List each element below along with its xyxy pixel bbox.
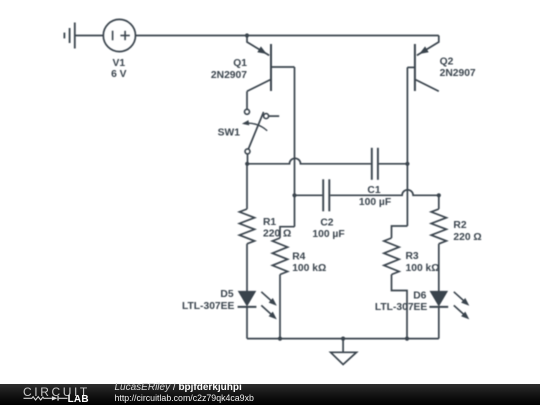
wire: D5 to bottom rail	[246, 307, 248, 339]
svg-text:C2: C2	[320, 218, 333, 229]
wire: R4 jog from Q1 base line	[280, 227, 295, 238]
wire: node A to R1	[246, 164, 248, 209]
node C (Q1 base / C2 / R4 junction)	[292, 193, 296, 197]
LED D5 (LTL-307EE)	[238, 291, 277, 319]
svg-text:R1: R1	[263, 217, 276, 228]
switch SW1 (SPDT)	[242, 109, 279, 154]
resistor R2	[431, 209, 446, 244]
resistor R1	[239, 209, 254, 244]
node D (Q2 collector / C2 / R2 junction)	[437, 193, 441, 197]
node: ground tap	[341, 337, 345, 341]
wire: Q1 collector to SW1	[246, 91, 248, 109]
LED D6 (LTL-307EE)	[429, 291, 469, 319]
ground (battery negative)	[64, 23, 74, 49]
resistor R3	[384, 238, 399, 275]
svg-text:100 kΩ: 100 kΩ	[406, 263, 440, 274]
wire: R2 to D6	[438, 244, 440, 292]
voltage source V1	[103, 19, 135, 51]
svg-text:100 kΩ: 100 kΩ	[292, 263, 326, 274]
transistor Q2 (PNP 2N2907)	[407, 36, 438, 92]
svg-text:SW1: SW1	[218, 127, 241, 138]
svg-text:Q1: Q1	[233, 58, 247, 69]
svg-text:LTL-307EE: LTL-307EE	[182, 301, 235, 312]
wire: node C to C2	[295, 194, 323, 196]
node: top rail junction at Q1 emitter	[245, 33, 249, 37]
capacitor C2	[323, 179, 329, 211]
wire: node A to C1 with hop over Q1 base	[247, 158, 371, 163]
svg-text:R4: R4	[292, 251, 305, 262]
wire: C2 to node D with hop over Q2 base	[330, 190, 439, 195]
svg-text:LTL-307EE: LTL-307EE	[375, 302, 428, 313]
node A (SW1 / C1 / R1 junction)	[245, 162, 249, 166]
svg-text:2N2907: 2N2907	[440, 68, 476, 79]
svg-text:6 V: 6 V	[111, 69, 127, 80]
node: R4 to bottom rail	[278, 337, 282, 341]
node B (Q2 base / C1 / R3 junction)	[405, 162, 409, 166]
svg-text:220 Ω: 220 Ω	[263, 229, 291, 240]
svg-text:D5: D5	[220, 289, 233, 300]
wire: R1 to D5	[246, 244, 248, 292]
wire: ground to V1 negative	[75, 35, 104, 37]
wire: D6 to bottom rail	[438, 307, 440, 339]
transistor Q1 (PNP 2N2907)	[247, 36, 295, 92]
node: R3 to bottom rail	[405, 337, 409, 341]
wire: R3 to bottom rail (jog right)	[392, 275, 408, 339]
wire: Q2 base vertical (node B to R3 jog)	[406, 67, 408, 226]
svg-text:2N2907: 2N2907	[211, 70, 247, 81]
wire: node D to R2	[438, 195, 440, 209]
svg-text:R2: R2	[453, 220, 466, 231]
svg-text:100 µF: 100 µF	[312, 229, 344, 240]
wire: top rail to Q2 emitter	[247, 35, 439, 37]
svg-text:V1: V1	[112, 58, 125, 69]
ground GND	[331, 339, 357, 365]
wire: R4 to bottom rail	[279, 275, 281, 339]
svg-text:220 Ω: 220 Ω	[453, 232, 481, 243]
wire: V1 to Q1 emitter node	[136, 35, 248, 37]
svg-text:100 µF: 100 µF	[359, 197, 391, 208]
capacitor C1	[372, 148, 378, 180]
wire: bottom rail	[247, 338, 439, 340]
wire: Q1 base vertical (through line A hop, to R4 jog)	[294, 67, 296, 227]
svg-text:D6: D6	[413, 290, 426, 301]
credits text	[114, 383, 116, 385]
svg-text:Q2: Q2	[440, 57, 454, 68]
CircuitLab logo	[23, 384, 93, 404]
wire: R3 jog from Q2 base line	[392, 226, 408, 238]
svg-text:C1: C1	[367, 185, 380, 196]
svg-text:R3: R3	[406, 251, 419, 262]
wire: SW1 common to node A	[247, 154, 249, 164]
resistor R4	[272, 238, 287, 275]
wire: C1 to node B	[379, 163, 408, 165]
